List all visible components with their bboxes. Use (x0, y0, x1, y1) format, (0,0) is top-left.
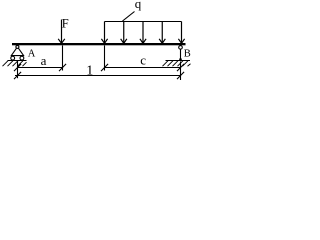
q arrow 4 (159, 22, 165, 44)
support B stem (180, 49, 182, 60)
svg-text:c: c (140, 52, 146, 67)
ground line at B (166, 60, 191, 62)
support B roller circle (179, 46, 183, 50)
dimension line a (18, 67, 63, 69)
svg-text:1: 1 (86, 64, 93, 79)
dimension line l (15, 75, 181, 77)
hatching at A (3, 61, 27, 66)
svg-text:q: q (135, 0, 142, 11)
svg-text:B: B (184, 48, 191, 59)
support A triangle (11, 48, 23, 55)
svg-text:a: a (41, 53, 47, 68)
extension line under F (62, 46, 64, 71)
tick a left (14, 64, 21, 71)
tick a right (59, 64, 66, 71)
q arrow 3 (140, 22, 146, 44)
support A roller circles (11, 56, 15, 60)
beam (12, 43, 186, 45)
extension line under A (17, 61, 19, 78)
hatching at B (163, 61, 191, 66)
tick c right (177, 64, 184, 71)
tick c left (101, 64, 108, 71)
extension line under B (180, 62, 182, 81)
q arrow 1 (101, 22, 107, 44)
support A pin circle (16, 45, 19, 48)
tick l left (14, 72, 21, 79)
q arrow 2 (121, 22, 127, 44)
svg-text:A: A (28, 48, 36, 59)
q leader line (123, 12, 135, 22)
support B foot diamond (179, 57, 182, 61)
svg-text:F: F (62, 17, 69, 31)
ground line at A (8, 60, 27, 62)
extension line at q start (104, 46, 106, 71)
tick l right (177, 72, 184, 79)
force F arrow (58, 20, 65, 44)
dimension line c (105, 67, 181, 69)
distributed load q top line (105, 21, 182, 23)
q arrow 5 (178, 22, 184, 44)
